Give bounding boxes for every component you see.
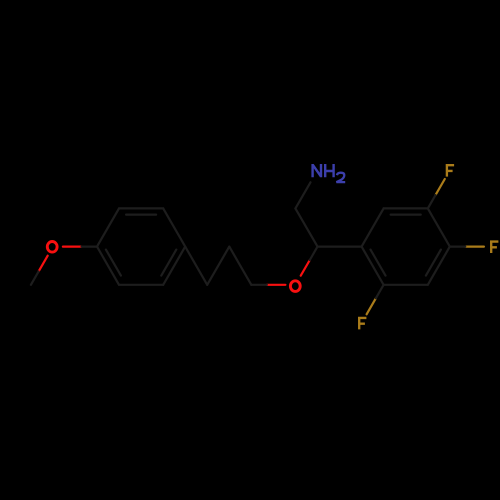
bond O2-CH gray half <box>310 247 318 260</box>
ring1 edge BL1-L1 <box>97 247 119 285</box>
bond N-C4 <box>295 182 310 208</box>
ring2 edge BL2-L2 <box>362 247 384 285</box>
bond C2-C3 <box>229 247 251 285</box>
bond O1-CH3 red half <box>39 256 48 272</box>
ring2 edge BR2-BL2 <box>384 284 428 286</box>
ring1 edge TR1-R1 <box>163 208 185 246</box>
F bottom label <box>358 317 366 330</box>
bond O2-CH red half <box>301 260 310 276</box>
ring2 edge L2-TL2 <box>362 208 384 246</box>
ring2 inner double TL2-TR2 <box>391 214 421 216</box>
ring1 inner double R1-BR1 <box>161 250 176 276</box>
ring2 edge TL2-TR2 <box>384 207 428 209</box>
ring1 edge TL1-TR1 <box>119 207 163 209</box>
ring1 edge L1-TL1 <box>97 208 119 246</box>
bond F2-R2 gray half <box>450 246 465 248</box>
bond O1-ring1 red half <box>63 246 82 248</box>
NH2 label letter H <box>325 164 333 177</box>
bond F1-TR2 gray half <box>428 195 436 208</box>
NH2 label letter N <box>313 164 321 177</box>
ring2 edge TR2-R2 <box>428 208 450 246</box>
bond O1-ring1 gray half <box>82 246 97 248</box>
ring2 inner double R2-BR2 <box>426 250 441 276</box>
bond R1-C1 <box>185 247 207 285</box>
bond F1-TR2 olive half <box>436 179 445 195</box>
bond F3-BL2 olive half <box>367 298 376 314</box>
ring1 edge BR1-BL1 <box>119 284 163 286</box>
bond F2-R2 olive half <box>465 246 484 248</box>
bond O1-CH3 gray half <box>31 271 39 284</box>
ring1 inner double TL1-TR1 <box>126 214 156 216</box>
bond O2-C3 red half <box>267 284 286 286</box>
bond F3-BL2 gray half <box>376 285 384 298</box>
ring1 edge R1-BR1 <box>163 247 185 285</box>
NH2 label subscript 2 <box>336 173 345 182</box>
methoxy O label <box>47 242 57 253</box>
bond O2-C3 gray half <box>251 284 266 286</box>
bond C1-C2 <box>207 247 229 285</box>
F top label <box>446 164 454 177</box>
ring1 inner double BL1-L1 <box>106 250 121 276</box>
ring2 edge R2-BR2 <box>428 247 450 285</box>
F right label <box>490 240 498 253</box>
ring2 inner double BL2-L2 <box>371 250 386 276</box>
ether O label <box>290 281 300 292</box>
bond CH-ring2 <box>318 246 362 248</box>
bond CH-C4 <box>295 208 317 246</box>
